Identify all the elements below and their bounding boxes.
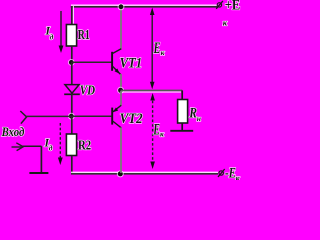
svg-text:R2: R2 [78,137,91,152]
svg-text:VT2: VT2 [120,110,143,127]
wire: left branch vertical from top rail to R1 [72,6,74,25]
resistor R2 [66,134,76,156]
wire: diode VD to node B [71,94,73,116]
svg-text:Е: Е [153,40,160,57]
svg-text:Е: Е [153,121,160,138]
wire: VT1 emitter to node E (mid rail) [120,74,122,89]
wire: node B to R2 [71,116,73,134]
input terminal chevron [20,111,26,124]
wire: R1 bottom to node A [71,46,73,62]
common (ground bar) under Rn [170,130,193,132]
transistor VT1 (NPN) [112,49,121,75]
wire: VT1 collector riser from top rail [120,7,122,50]
svg-text:-Е: -Е [225,165,236,180]
wire: top +Ek rail [71,5,217,7]
wire: input terminal to node B [26,115,71,117]
label -E (supply negative) [225,165,241,183]
label Ek (upper) [153,40,165,57]
voltage arrow Ek (lower, dashed, double-headed) [150,93,155,169]
svg-text:д: д [49,143,53,152]
svg-text:VT1: VT1 [120,55,143,72]
node B (junction dot: input / VT2 base / R2) [68,113,75,120]
wire: mid output rail to Rn [121,90,183,92]
node E (junction dot: output node) [117,87,124,94]
svg-text:д: д [50,32,54,41]
wire: bottom -Ek rail [71,172,218,174]
svg-text:н: н [197,114,201,123]
wire: VT2 emitter riser from node E [120,91,122,106]
node C (junction dot on bottom rail, VT2 collector) [117,170,124,177]
wire: node A to diode VD [71,62,73,85]
wire: R2 bottom to bottom rail corner [71,156,73,175]
wire: Rn riser [181,90,183,99]
node D (junction dot on top rail at VT1 collector) [118,3,125,10]
wire: VT2 collector to bottom rail [120,127,122,173]
input source arrow [12,143,24,151]
wire: common vertical [40,146,42,173]
svg-text:к: к [160,129,164,138]
voltage arrow Ek (upper, solid, double-headed) [150,8,155,90]
svg-text:+Е: +Е [225,0,241,14]
svg-text:к: к [161,48,165,57]
current arrow Id (dashed, through R2) [58,123,63,165]
label Id (lower) [44,138,53,153]
label Id (top) [45,26,54,42]
svg-text:VD: VD [80,82,95,97]
label Ek (lower) [153,121,164,138]
wire: VT2 base wire from node B [71,115,111,117]
common (ground bar) at input [29,172,48,174]
resistor R1 [66,25,76,47]
resistor Rn [178,100,188,124]
terminal +Ek [216,1,223,9]
label +E (supply positive) [223,0,241,28]
svg-text:Вход: Вход [1,125,25,139]
node A (junction dot: divider / VT1 base) [68,59,75,66]
svg-text:R1: R1 [78,28,90,43]
wire: Rn bottom to common [181,123,183,130]
label Rn [188,106,200,123]
diode VD [64,85,80,95]
transistor VT2 (PNP) [112,105,121,128]
terminal -Ek [218,169,225,177]
svg-text:к: к [223,18,228,28]
wire: VT1 base wire from node A [71,61,111,63]
current arrow Id (divider current, top) [59,11,64,53]
wire: input source to common [23,145,42,147]
